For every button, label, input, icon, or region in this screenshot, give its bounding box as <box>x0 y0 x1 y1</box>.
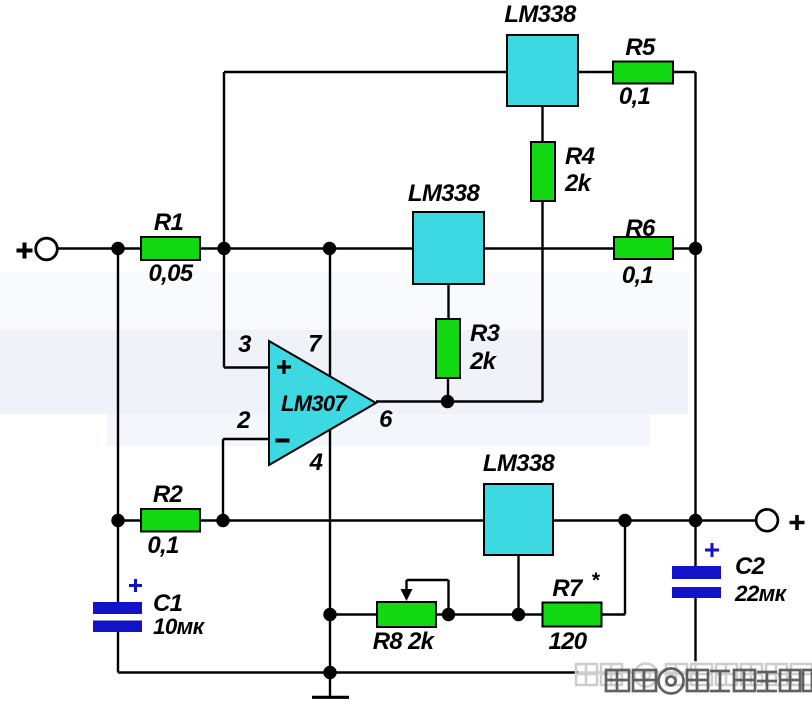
svg-text:0,05: 0,05 <box>149 260 194 287</box>
regulator U1 LM338 <box>507 35 578 106</box>
wire U2 to R6 <box>484 247 614 249</box>
svg-text:R8 2k: R8 2k <box>373 628 436 655</box>
node opamp output <box>441 395 454 408</box>
svg-text:R3: R3 <box>470 320 501 347</box>
svg-text:LM338: LM338 <box>483 450 556 477</box>
wire R4 bottom riser <box>541 201 543 402</box>
wire opamp output run <box>376 400 543 402</box>
node R7 riser top <box>618 514 631 527</box>
wire right rail upper <box>694 72 696 520</box>
wire R1 to U2 <box>200 247 413 249</box>
node R8 left <box>323 608 336 621</box>
wire R8 wiper <box>407 580 449 615</box>
capacitor C1 <box>93 602 142 614</box>
svg-text:22мк: 22мк <box>734 581 788 606</box>
wire top run right <box>673 71 696 73</box>
wire to op-amp plus input <box>224 366 269 368</box>
node pin7 rail <box>323 242 336 255</box>
svg-text:LM338: LM338 <box>408 180 481 207</box>
svg-text:2: 2 <box>236 407 251 434</box>
wire R7 right <box>601 613 625 615</box>
wire R2 to U3 <box>200 519 484 521</box>
svg-text:120: 120 <box>549 628 588 655</box>
svg-text:10мк: 10мк <box>153 614 206 639</box>
op-amp U4 LM307 <box>269 341 376 465</box>
svg-text:3: 3 <box>238 331 252 358</box>
svg-text:6: 6 <box>379 406 393 433</box>
opamp minus input mark <box>276 439 290 443</box>
node R8 wiper <box>442 608 455 621</box>
wire riser x223 <box>222 439 224 521</box>
node R1 right <box>217 242 230 255</box>
wire node to R8 <box>330 613 378 615</box>
wire U3 bottom pin <box>517 555 519 615</box>
watermark light layer <box>576 664 812 687</box>
wire top run left <box>224 71 507 73</box>
output plus sign <box>790 515 805 530</box>
svg-text:2k: 2k <box>564 170 593 197</box>
svg-text:LM307: LM307 <box>281 391 348 416</box>
wire R6 to right rail <box>673 247 696 249</box>
input plus sign <box>17 243 33 259</box>
node U3 adj <box>512 608 525 621</box>
resistor R6 <box>614 237 673 259</box>
svg-text:4: 4 <box>309 449 323 476</box>
regulator U3 LM338 <box>484 484 553 555</box>
watermark backdrop <box>578 661 812 696</box>
wire left to R2 <box>118 519 141 521</box>
output terminal <box>756 509 778 531</box>
regulator U2 LM338 <box>413 212 484 284</box>
svg-text:C2: C2 <box>735 553 766 580</box>
svg-text:R5: R5 <box>625 34 656 61</box>
svg-text:R6: R6 <box>625 215 656 242</box>
svg-text:R2: R2 <box>153 481 184 508</box>
wire riser x224 <box>223 72 225 368</box>
resistor R4 <box>531 142 555 201</box>
wire R7 riser <box>624 521 626 615</box>
wire input to R1 <box>57 247 141 249</box>
resistor R1 <box>141 237 200 260</box>
wire top run mid <box>578 71 613 73</box>
node R1 left <box>111 242 124 255</box>
opamp plus input mark <box>277 360 291 374</box>
node R2 left <box>111 514 124 527</box>
resistor R2 <box>141 509 200 532</box>
potentiometer R8 <box>377 602 436 627</box>
R8 wiper arrowhead <box>401 589 413 601</box>
input terminal <box>36 238 58 260</box>
capacitor C2 <box>672 566 721 579</box>
node ground <box>323 666 336 679</box>
background tint band <box>0 272 690 330</box>
wire R3 bottom <box>447 378 449 402</box>
ground <box>312 696 349 699</box>
svg-text:R1: R1 <box>154 209 184 236</box>
background tint band 3 <box>107 414 650 446</box>
svg-text:0,1: 0,1 <box>622 262 654 289</box>
svg-text:2k: 2k <box>469 348 498 375</box>
svg-text:0,1: 0,1 <box>619 83 651 110</box>
C1 plus mark <box>129 579 142 592</box>
watermark dark layer <box>606 669 812 694</box>
svg-text:R7: R7 <box>552 575 584 602</box>
node R6 right <box>689 242 702 255</box>
wire to op-amp minus input <box>223 438 269 440</box>
svg-text:LM338: LM338 <box>504 1 577 28</box>
svg-text:0,1: 0,1 <box>147 532 179 559</box>
wire bottom rail <box>118 671 696 673</box>
wire U2 bottom pin <box>447 284 449 319</box>
wire right rail to C2 <box>694 520 696 566</box>
background tint band 2 <box>0 330 688 414</box>
wire U3 to output <box>553 519 756 521</box>
resistor R3 <box>436 319 460 378</box>
resistor R7 <box>543 603 602 627</box>
wire R8 to R7 <box>435 613 543 615</box>
wire left rail below C1 <box>117 632 119 673</box>
wire right rail below C2 <box>694 598 696 673</box>
resistor R5 <box>613 62 673 84</box>
svg-text:R4: R4 <box>565 143 595 170</box>
node R2 right <box>216 514 229 527</box>
C2 plus mark <box>705 543 719 557</box>
wire left rail upper <box>117 249 119 603</box>
wire pin7-pin4 vertical x330 <box>329 249 331 673</box>
ground stub <box>329 673 331 697</box>
node output rail <box>689 514 702 527</box>
svg-text:C1: C1 <box>153 590 183 617</box>
wire U1 bottom pin <box>541 106 543 142</box>
